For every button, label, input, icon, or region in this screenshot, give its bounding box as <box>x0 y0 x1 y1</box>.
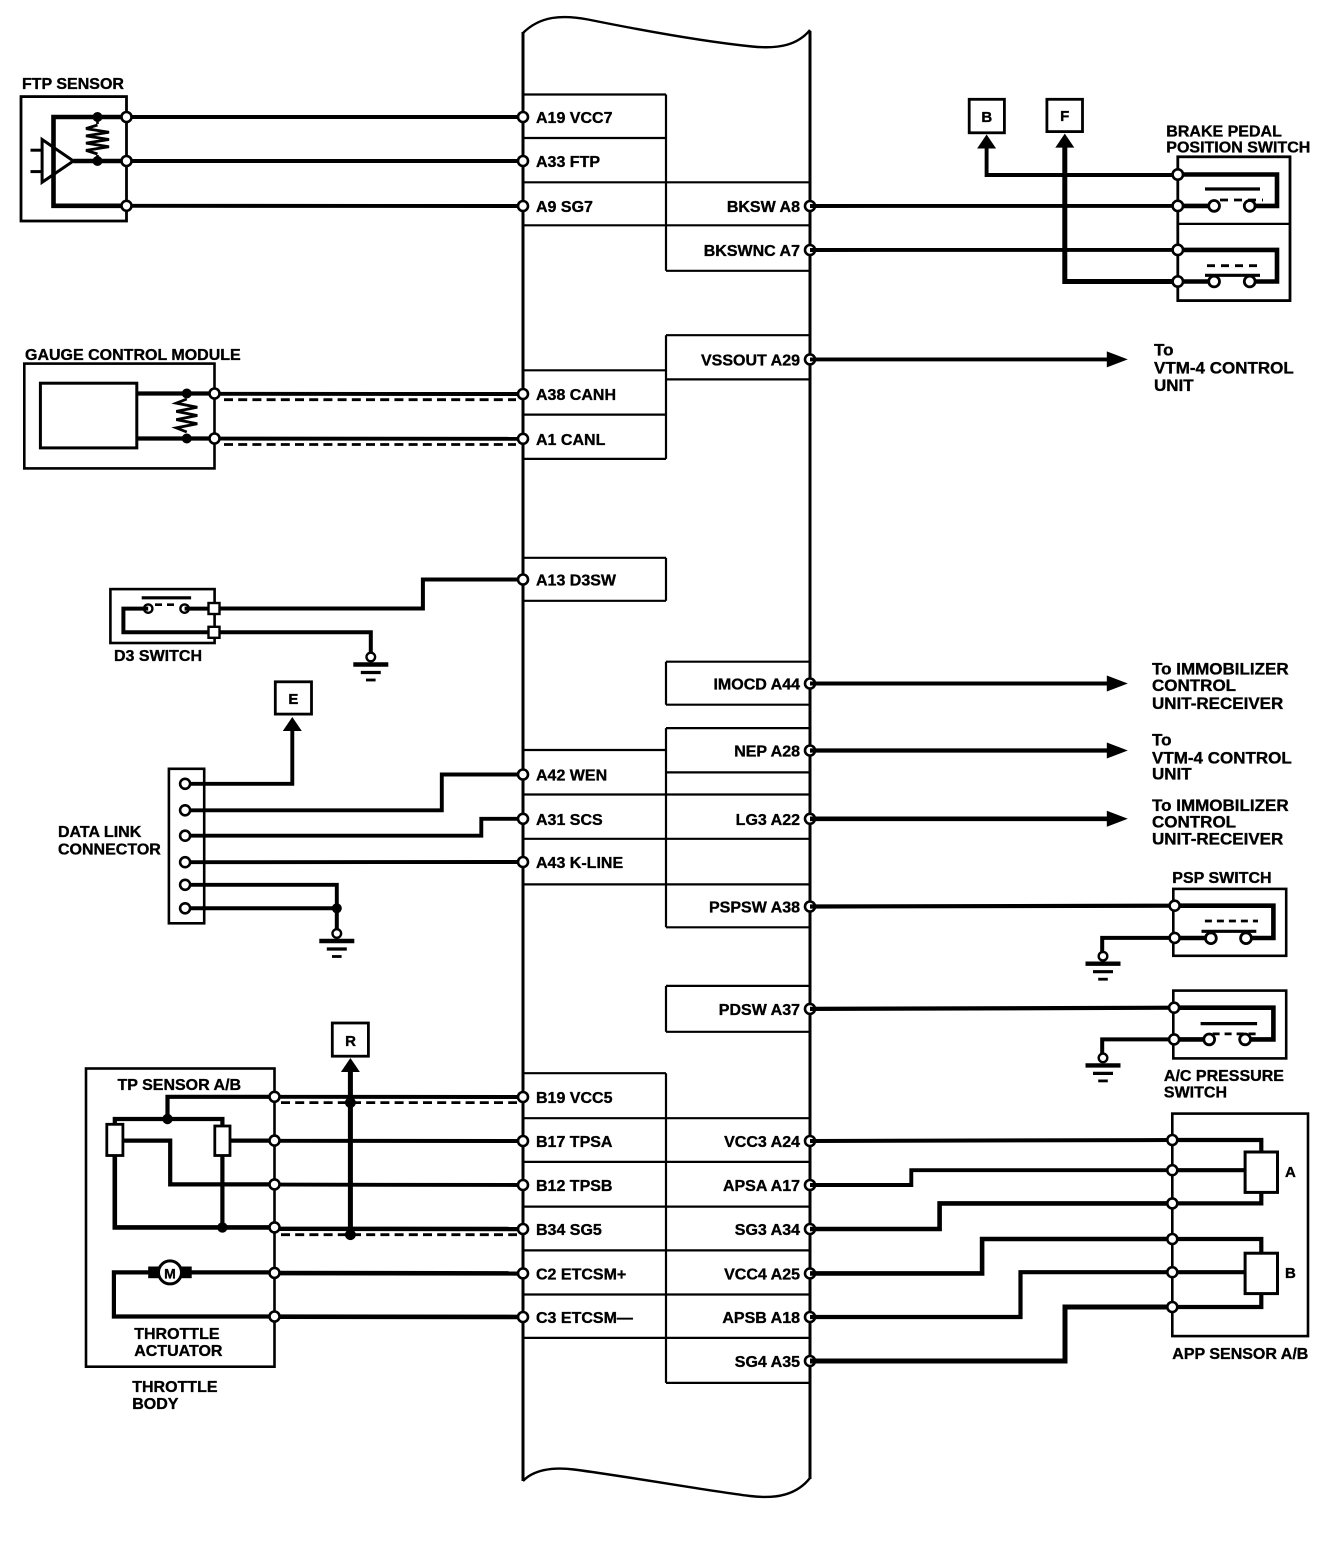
D3 switch actuator bar <box>142 596 191 599</box>
D3 switch contact circles <box>144 604 152 612</box>
wire PSPSW A38 to PSP switch <box>810 904 1175 909</box>
brake switch NO left contact wire <box>1178 279 1214 284</box>
gauge module resistor junction bottom <box>182 434 192 444</box>
wire IMOCD A44 to immobilizer unit <box>810 682 1108 686</box>
pin box middle divider segments <box>665 95 667 271</box>
svg-text:IMOCD A44: IMOCD A44 <box>713 677 800 694</box>
svg-text:To: To <box>1152 730 1172 749</box>
APP sensor A resistor <box>1245 1152 1277 1192</box>
svg-text:LG3 A22: LG3 A22 <box>736 812 800 829</box>
svg-text:E: E <box>288 691 298 708</box>
brake switch NC actuator bar <box>1205 187 1260 190</box>
TP sensor supply rail wire <box>115 1119 223 1126</box>
svg-text:BODY: BODY <box>132 1396 179 1413</box>
FTP sensor output wire <box>73 159 126 164</box>
PSP switch left contact wire <box>1175 936 1211 941</box>
svg-text:A/C PRESSURE: A/C PRESSURE <box>1164 1068 1284 1085</box>
wire DLC pin3 to A31 SCS <box>190 819 523 836</box>
ground symbol below D3 switch <box>367 653 376 662</box>
arrow to connector F <box>1055 134 1074 148</box>
wire brake switch to connector B <box>987 147 1177 176</box>
svg-text:F: F <box>1060 108 1069 125</box>
ECM/PCM band left edge wire <box>522 32 525 1481</box>
svg-text:A13 D3SW: A13 D3SW <box>536 573 617 590</box>
DLC ground junction node <box>332 903 342 913</box>
svg-text:TP SENSOR A/B: TP SENSOR A/B <box>118 1077 242 1094</box>
brake switch box divider <box>1178 223 1290 225</box>
svg-text:SWITCH: SWITCH <box>1164 1084 1227 1101</box>
APP sensor A ground wire <box>1172 1192 1261 1203</box>
TP sensor supply wire from B19 <box>168 1097 275 1119</box>
PSP switch contacts <box>1206 933 1217 944</box>
FTP sensor internal resistor R <box>96 117 99 124</box>
TP sensor ground junction node <box>217 1222 227 1232</box>
D3 switch terminal square top <box>209 603 220 614</box>
gauge control module CANH wire <box>137 391 215 395</box>
A/C pressure switch dashed contact <box>1213 1033 1257 1036</box>
wire CANH twisted pair dashed <box>224 398 516 401</box>
svg-text:GAUGE CONTROL MODULE: GAUGE CONTROL MODULE <box>25 347 241 364</box>
svg-text:A42 WEN: A42 WEN <box>536 768 607 785</box>
wire gauge module to A1 CANL <box>219 437 523 441</box>
TP sensor B wiper wire to B17 <box>230 1138 275 1142</box>
PSP switch dashed contact <box>1205 920 1258 923</box>
svg-text:A19 VCC7: A19 VCC7 <box>536 110 613 127</box>
wire DLC pin4 to A43 K-LINE <box>190 860 523 864</box>
wire B19 VCC5 shield dashed <box>281 1101 517 1104</box>
wire shield drain to connector R <box>348 1070 353 1236</box>
svg-text:UNIT-RECEIVER: UNIT-RECEIVER <box>1152 694 1283 713</box>
arrow to immobilizer control unit-receiver lower <box>1107 811 1128 827</box>
wire LG3 A22 to immobilizer unit <box>810 816 1108 821</box>
gauge module resistor junction top <box>182 389 192 399</box>
wire throttle body to B12 TPSB <box>279 1183 523 1187</box>
svg-text:THROTTLE: THROTTLE <box>132 1379 218 1396</box>
svg-text:APSA A17: APSA A17 <box>723 1178 800 1195</box>
FTP sensor resistor junction node bottom <box>93 156 103 166</box>
wire brake switch to connector F <box>1065 146 1177 282</box>
APP sensor terminal pins <box>1167 1135 1177 1145</box>
D3 switch internal wire <box>123 609 210 633</box>
svg-text:FTP SENSOR: FTP SENSOR <box>22 76 124 93</box>
TP sensor A wiper wire to B12 <box>123 1141 275 1185</box>
A/C pressure switch contacts <box>1204 1034 1215 1045</box>
arrow to VTM-4 control unit lower <box>1107 743 1128 759</box>
svg-text:A31 SCS: A31 SCS <box>536 812 603 829</box>
TP sensor ground wire to B34 <box>115 1156 275 1228</box>
wire throttle body to B17 TPSA <box>279 1139 523 1143</box>
A/C pressure switch left contact wire <box>1174 1037 1209 1042</box>
svg-text:A38 CANH: A38 CANH <box>536 387 616 404</box>
gauge control module terminating resistor R <box>176 399 197 432</box>
throttle body outer box <box>86 1069 275 1367</box>
svg-text:B: B <box>1285 1265 1296 1282</box>
TP sensor supply junction node <box>162 1114 172 1124</box>
TP sensor A resistor <box>107 1124 123 1155</box>
svg-text:BKSWNC A7: BKSWNC A7 <box>704 243 800 260</box>
svg-text:UNIT: UNIT <box>1154 376 1194 395</box>
svg-text:B: B <box>981 109 992 126</box>
ECM pin terminals left <box>518 112 528 122</box>
APP sensor B resistor <box>1245 1253 1277 1293</box>
wire BKSWNC A7 to brake switch <box>810 248 1177 252</box>
gauge control module outer box <box>24 364 214 469</box>
APP sensor box <box>1172 1114 1308 1337</box>
svg-text:A9 SG7: A9 SG7 <box>536 199 593 216</box>
svg-text:To: To <box>1154 341 1174 360</box>
connector B box <box>969 99 1004 133</box>
A/C pressure switch internal wire <box>1174 1008 1273 1040</box>
brake switch NO dashed contact <box>1207 264 1260 267</box>
arrow to immobilizer control unit-receiver upper <box>1107 676 1128 692</box>
svg-text:M: M <box>164 1266 176 1282</box>
brake pedal position switch box <box>1178 157 1290 301</box>
throttle actuator motor minus wire <box>114 1272 275 1316</box>
svg-text:D3 SWITCH: D3 SWITCH <box>114 648 202 665</box>
svg-text:APSB A18: APSB A18 <box>722 1310 800 1327</box>
svg-text:PSPSW A38: PSPSW A38 <box>709 900 800 917</box>
svg-text:CONNECTOR: CONNECTOR <box>58 842 161 859</box>
svg-text:B17 TPSA: B17 TPSA <box>536 1134 613 1151</box>
FTP sensor terminal pins <box>122 112 132 122</box>
svg-text:APP SENSOR A/B: APP SENSOR A/B <box>1172 1346 1308 1363</box>
svg-text:SG3 A34: SG3 A34 <box>735 1222 800 1239</box>
connector R box <box>332 1023 368 1056</box>
wire DLC pin2 to A42 WEN <box>190 775 523 811</box>
shield junction node on B19 dashed <box>345 1097 356 1108</box>
brake switch NO contact bar <box>1205 274 1260 277</box>
svg-text:A33 FTP: A33 FTP <box>536 154 600 171</box>
APP sensor B ground wire <box>1172 1294 1261 1307</box>
connector F box <box>1047 99 1083 131</box>
wire PDSW A37 to A/C pressure switch <box>810 1008 1174 1009</box>
svg-text:A: A <box>1285 1164 1296 1181</box>
svg-text:PDSW A37: PDSW A37 <box>719 1002 800 1019</box>
svg-text:VTM-4 CONTROL: VTM-4 CONTROL <box>1154 358 1294 377</box>
connector E box <box>275 682 311 714</box>
svg-text:SG4 A35: SG4 A35 <box>735 1354 800 1371</box>
APP sensor A wiper wire <box>1172 1168 1245 1172</box>
ECM pin terminals right <box>805 201 815 211</box>
wire B34 SG5 shield dashed <box>281 1233 517 1236</box>
svg-text:POSITION SWITCH: POSITION SWITCH <box>1166 140 1310 157</box>
svg-text:C3 ETCSM—: C3 ETCSM— <box>536 1310 633 1327</box>
brake switch NO contacts <box>1209 276 1220 287</box>
PSP switch box <box>1173 889 1286 956</box>
brake switch NC dashed contact <box>1220 199 1263 202</box>
svg-text:VCC3 A24: VCC3 A24 <box>724 1134 800 1151</box>
svg-text:PSP SWITCH: PSP SWITCH <box>1172 870 1271 887</box>
svg-text:VCC4 A25: VCC4 A25 <box>724 1266 800 1283</box>
wire VCC3 A24 to APP sensor <box>810 1140 1172 1141</box>
D3 switch terminal square bottom <box>209 627 220 638</box>
wire FTP sensor to A33 FTP <box>131 159 523 163</box>
throttle body pin circles <box>270 1092 280 1102</box>
wire CANL twisted pair dashed <box>224 443 516 446</box>
svg-text:C2 ETCSM+: C2 ETCSM+ <box>536 1266 626 1283</box>
PSP switch internal wire <box>1175 906 1274 938</box>
svg-text:BKSW A8: BKSW A8 <box>727 199 800 216</box>
APP sensor B supply wire <box>1172 1239 1261 1253</box>
wire VCC4 A25 to APP sensor <box>810 1239 1172 1273</box>
gauge control module terminal pins <box>210 389 220 399</box>
throttle actuator motor right terminal <box>181 1267 192 1278</box>
brake switch NO internal wire <box>1178 250 1277 282</box>
svg-text:A1 CANL: A1 CANL <box>536 432 606 449</box>
arrow to connector R <box>341 1058 360 1072</box>
svg-text:R: R <box>345 1033 356 1050</box>
wire D3 switch to A13 D3SW <box>220 580 524 609</box>
arrow to connector E <box>283 717 302 731</box>
svg-text:B34 SG5: B34 SG5 <box>536 1222 602 1239</box>
wire DLC pin6 to ground <box>190 908 337 929</box>
wire D3 switch to ground <box>220 632 371 652</box>
wire APSB A18 to APP sensor <box>810 1272 1172 1317</box>
PSP switch terminal pins <box>1170 901 1180 911</box>
svg-text:NEP A28: NEP A28 <box>734 744 800 761</box>
gauge control module CANL wire <box>137 436 215 440</box>
PSP switch ground wire <box>1102 938 1170 952</box>
wire BKSW A8 to brake switch <box>810 204 1177 208</box>
ground symbol below A/C pressure switch <box>1099 1054 1108 1063</box>
data link connector box <box>169 769 204 924</box>
wire NEP A28 to VTM-4 control unit <box>810 748 1108 752</box>
svg-text:THROTTLE: THROTTLE <box>134 1326 220 1343</box>
FTP sensor amplifier triangle U <box>42 140 73 183</box>
arrow to VTM-4 control unit <box>1107 351 1128 367</box>
throttle actuator motor left terminal <box>149 1267 160 1278</box>
wire VSSOUT A29 to VTM-4 control unit <box>810 357 1108 361</box>
ECM/PCM band right edge wire <box>809 31 812 1479</box>
gauge control module inner box <box>40 383 136 448</box>
arrow to connector B <box>977 135 996 149</box>
ECM/PCM band torn top edge <box>523 17 810 47</box>
throttle actuator motor M <box>191 1270 274 1274</box>
A/C pressure switch box <box>1173 991 1286 1059</box>
D3 switch dashed contact link <box>155 603 179 606</box>
pin box lines full width <box>523 181 810 183</box>
svg-text:B19 VCC5: B19 VCC5 <box>536 1090 613 1107</box>
ECM/PCM band torn bottom edge <box>523 1469 810 1497</box>
wire throttle body to C3 ETCSM- <box>279 1314 523 1319</box>
svg-text:VSSOUT A29: VSSOUT A29 <box>701 352 800 369</box>
wire FTP sensor to A9 SG7 <box>131 204 523 208</box>
APP sensor B wiper wire <box>1172 1270 1245 1274</box>
FTP sensor internal supply wire <box>54 117 127 206</box>
APP sensor A supply wire <box>1172 1140 1261 1152</box>
FTP sensor input stub wires <box>31 149 43 152</box>
wire throttle body to B34 SG5 <box>279 1227 523 1232</box>
wire throttle body to B19 VCC5 <box>279 1095 523 1099</box>
shield junction node on B34 dashed <box>345 1229 356 1240</box>
brake switch NC internal wire <box>1178 175 1277 206</box>
pin box lines left column <box>523 93 666 95</box>
FTP sensor box <box>21 97 127 221</box>
svg-text:A43 K-LINE: A43 K-LINE <box>536 855 623 872</box>
pin box lines right column <box>666 270 810 272</box>
TP sensor B ground leg wire <box>220 1156 224 1228</box>
wire SG3 A34 to APP sensor <box>810 1203 1172 1229</box>
wire DLC pin5 to ground junction <box>190 885 337 905</box>
D3 switch wire contact to terminal <box>185 607 210 611</box>
wire gauge module to A38 CANH <box>219 392 523 396</box>
wire SG4 A35 to APP sensor <box>810 1307 1172 1361</box>
svg-text:UNIT-RECEIVER: UNIT-RECEIVER <box>1152 829 1283 848</box>
wire DLC pin1 to connector E <box>190 729 292 784</box>
ground symbol below PSP switch <box>1099 952 1108 961</box>
brake switch NC left contact wire <box>1178 204 1214 209</box>
brake switch NC contacts <box>1209 201 1220 212</box>
svg-text:UNIT: UNIT <box>1152 765 1192 784</box>
ground symbol below data link connector <box>333 929 342 938</box>
A/C pressure switch ground wire <box>1102 1039 1169 1053</box>
wire throttle body to C2 ETCSM+ <box>279 1271 523 1276</box>
FTP sensor resistor junction node top <box>93 112 103 122</box>
A/C pressure switch actuator bar <box>1201 1022 1258 1025</box>
TP sensor B resistor <box>215 1126 230 1156</box>
brake switch terminal pins <box>1173 169 1183 179</box>
svg-text:ACTUATOR: ACTUATOR <box>134 1343 223 1360</box>
svg-text:B12 TPSB: B12 TPSB <box>536 1178 612 1195</box>
D3 switch box <box>110 589 214 643</box>
svg-text:BRAKE PEDAL: BRAKE PEDAL <box>1166 124 1282 141</box>
PSP switch contact bar <box>1202 930 1257 933</box>
A/C pressure switch terminal pins <box>1169 1003 1179 1013</box>
svg-text:CONTROL: CONTROL <box>1152 676 1236 695</box>
svg-text:DATA LINK: DATA LINK <box>58 824 142 841</box>
data link connector pin circles <box>180 779 190 789</box>
wire FTP sensor to A19 VCC7 <box>131 115 523 119</box>
wire APSA A17 to APP sensor <box>810 1170 1172 1185</box>
